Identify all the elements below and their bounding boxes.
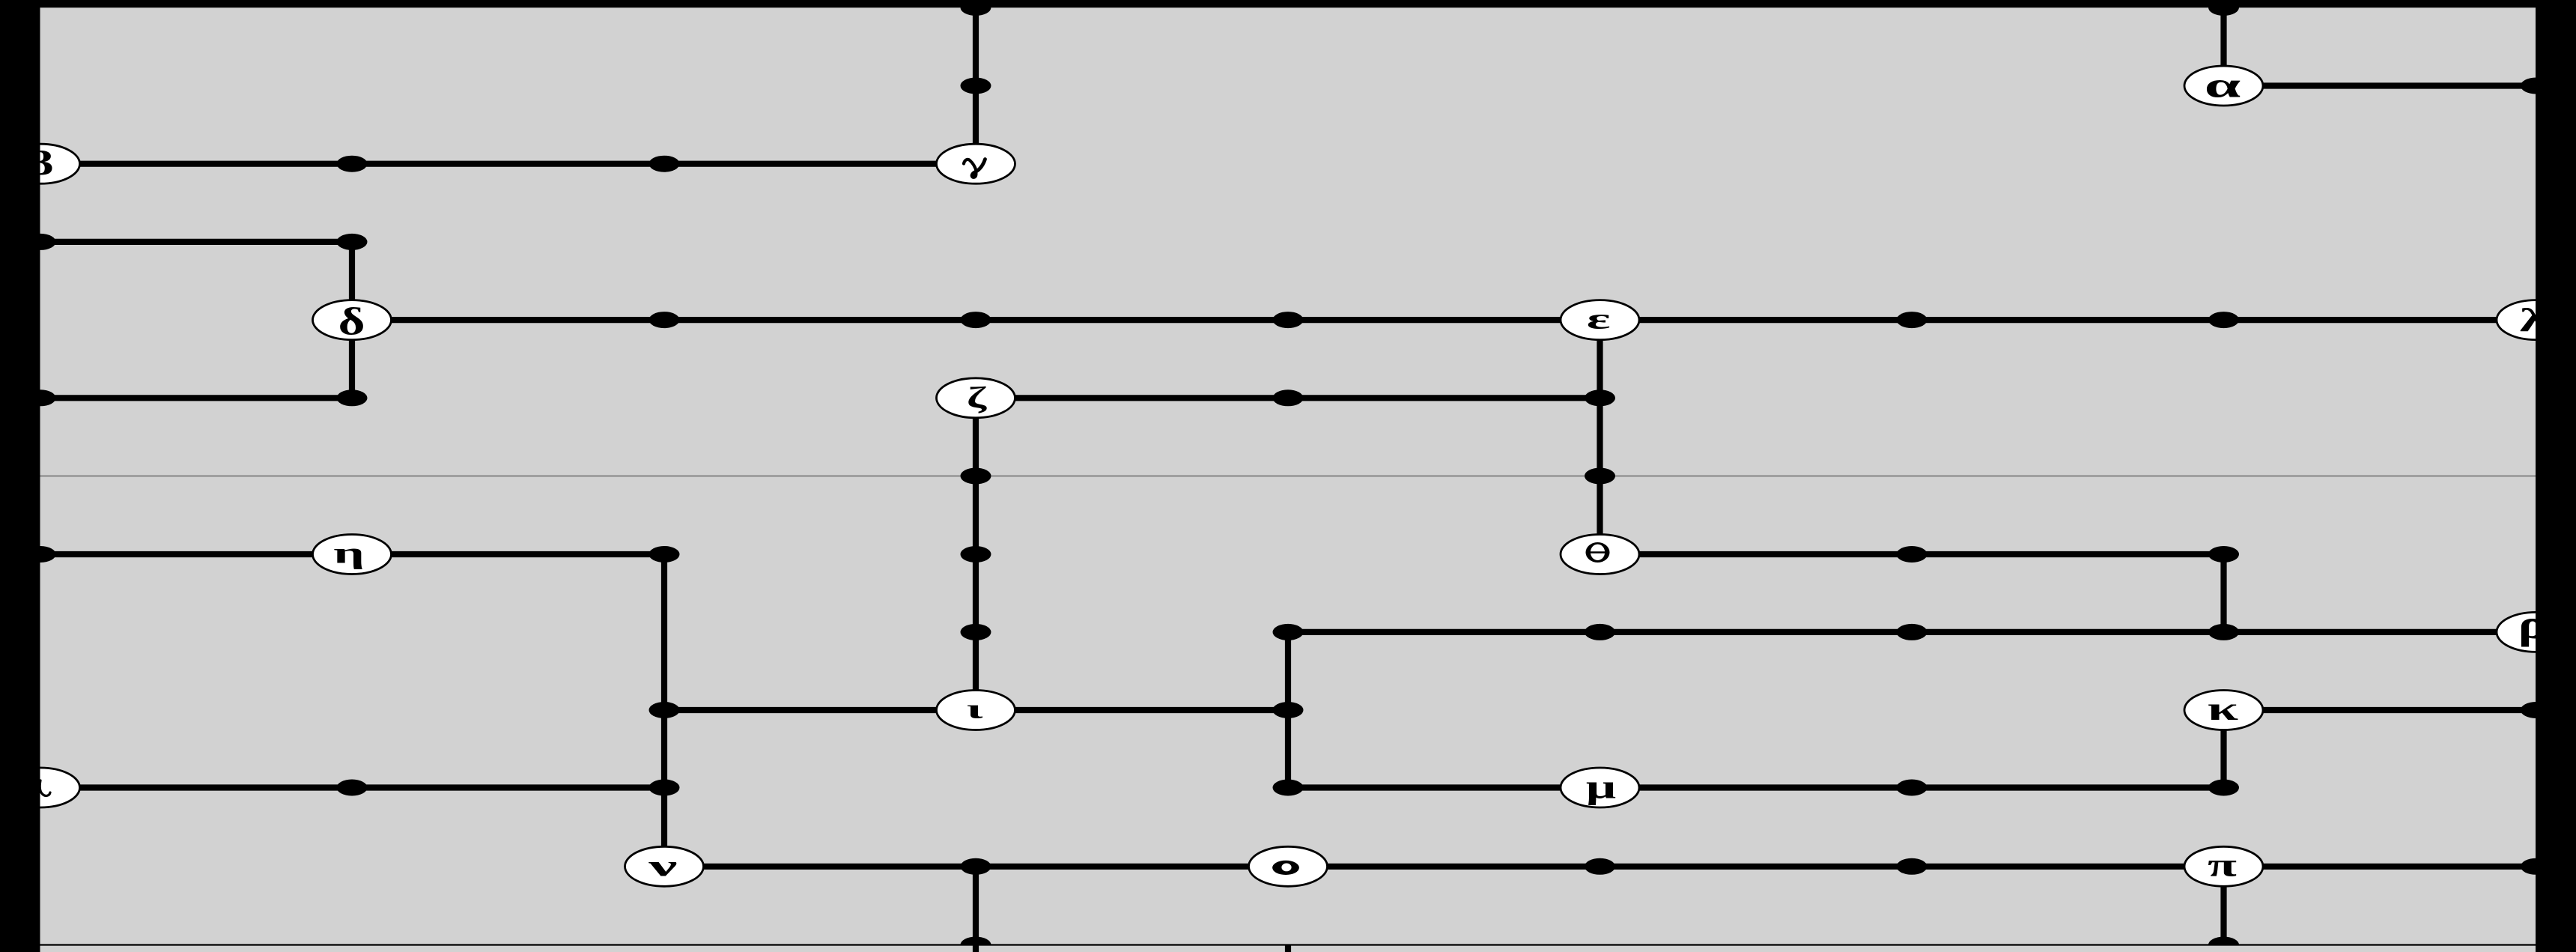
wire alpha-east — [2224, 82, 2536, 88]
page 3 background strip — [40, 945, 2536, 952]
junction r8-elbow — [1273, 624, 1304, 640]
svg-text:η: η — [333, 537, 365, 570]
junction r12-b — [2208, 937, 2239, 952]
junction r5-elbow — [337, 389, 368, 406]
wire rho-west — [1288, 629, 2536, 635]
page separator line (bottom) — [40, 944, 2536, 945]
node beta — [1, 144, 80, 184]
junction r7-elbow — [649, 546, 680, 563]
wire kappa-east — [2224, 707, 2536, 713]
junction r9-b — [1273, 702, 1304, 718]
junction r5-cross — [1585, 389, 1615, 406]
junction r1-c3 — [961, 78, 991, 94]
node theta — [1561, 535, 1639, 574]
junction r7-west — [25, 546, 56, 563]
junction r11-c — [1897, 858, 1928, 875]
wire eta-run — [40, 551, 664, 557]
junction r4-c — [1273, 312, 1304, 328]
svg-text:π: π — [2208, 846, 2237, 883]
wire nu-south below page line — [973, 945, 979, 952]
wire theta-east — [1600, 551, 2224, 557]
border bar right — [2536, 0, 2576, 952]
junction r8-c — [2208, 624, 2239, 640]
junction r5-a — [1273, 389, 1304, 406]
node pi — [2184, 846, 2263, 886]
svg-text:α: α — [2205, 66, 2241, 105]
wire pi-south — [2220, 867, 2226, 945]
junction r3-west — [25, 234, 56, 250]
svg-text:ι: ι — [967, 694, 984, 725]
node nu — [625, 846, 704, 886]
junction r4-a — [649, 312, 680, 328]
node mu — [1561, 768, 1639, 808]
svg-text:ε: ε — [1587, 303, 1611, 335]
node rho — [2497, 601, 2575, 652]
node alpha — [2184, 66, 2263, 106]
wire beta-gamma — [40, 161, 976, 167]
junction r6-b — [1585, 468, 1615, 485]
junction r9-a — [649, 702, 680, 718]
svg-text:δ: δ — [338, 301, 365, 344]
svg-text:κ: κ — [2208, 690, 2238, 727]
wire iota-run — [664, 707, 1288, 713]
wire xi-east — [40, 784, 664, 790]
wire zeta-east — [976, 395, 1600, 401]
node omicron — [1249, 846, 1328, 886]
junction r8-b — [1897, 624, 1928, 640]
node epsilon — [1561, 300, 1639, 340]
node eta — [313, 535, 392, 574]
junction r7-c3 — [961, 546, 991, 563]
junction r11-east — [2521, 858, 2551, 875]
junction r4-e — [2208, 312, 2239, 328]
border bar top — [0, 0, 2576, 7]
junction r4-b — [961, 312, 991, 328]
svg-text:ζ: ζ — [967, 381, 988, 414]
wire top-gamma — [973, 7, 979, 164]
wire nu-south — [973, 867, 979, 952]
junction top-c3 — [961, 0, 991, 16]
junction r9-east — [2521, 702, 2551, 718]
wire kappa-mu — [2220, 710, 2226, 788]
junction r3-elbow — [337, 234, 368, 250]
node zeta — [937, 378, 1015, 418]
junction r10-a — [337, 780, 368, 796]
wire delta-epsilon-lambda — [352, 317, 2536, 323]
node delta — [313, 300, 392, 344]
wire c4-vert — [1285, 632, 1291, 788]
page separator line (middle) — [40, 476, 2536, 477]
node xi — [1, 768, 80, 807]
junction r8-c3 — [961, 624, 991, 640]
junction r11-a — [961, 858, 991, 875]
wire zeta-iota — [973, 398, 979, 710]
wire eta-nu — [661, 554, 667, 867]
junction r8-a — [1585, 624, 1615, 640]
wire delta-vert — [349, 242, 355, 398]
wire mu-run — [1288, 784, 2224, 790]
wire top-alpha — [2220, 7, 2226, 86]
junction r1-east — [2521, 78, 2551, 94]
junction r10-elbow — [1273, 780, 1304, 796]
svg-text:ν: ν — [647, 850, 677, 882]
wire theta-elbow — [2220, 554, 2226, 632]
wire epsilon-theta — [1597, 320, 1603, 554]
wire omicron-south below page line — [1285, 945, 1291, 952]
junction top-c7 — [2208, 0, 2239, 16]
junction r7-a — [1897, 546, 1928, 563]
junction r10-b — [649, 780, 680, 796]
junction r5-west — [25, 389, 56, 406]
junction r7-elbow2 — [2208, 546, 2239, 563]
wire nu-omicron-pi — [664, 864, 2536, 870]
junction r2-a — [337, 156, 368, 172]
wire west-r5 — [40, 395, 352, 401]
node gamma — [937, 144, 1015, 184]
svg-text:μ: μ — [1586, 768, 1616, 806]
junction r11-b — [1585, 858, 1615, 875]
junction r10-elbow2 — [2208, 780, 2239, 796]
node kappa — [2184, 690, 2263, 730]
wire west-r3 — [40, 239, 352, 245]
junction r2-b — [649, 156, 680, 172]
junction r6-a — [961, 468, 991, 485]
node iota — [937, 691, 1015, 730]
junction r12-a — [961, 937, 991, 952]
border bar left — [0, 0, 40, 952]
node lambda — [2497, 300, 2575, 340]
junction r4-d — [1897, 312, 1928, 328]
junction r10-c — [1897, 780, 1928, 796]
